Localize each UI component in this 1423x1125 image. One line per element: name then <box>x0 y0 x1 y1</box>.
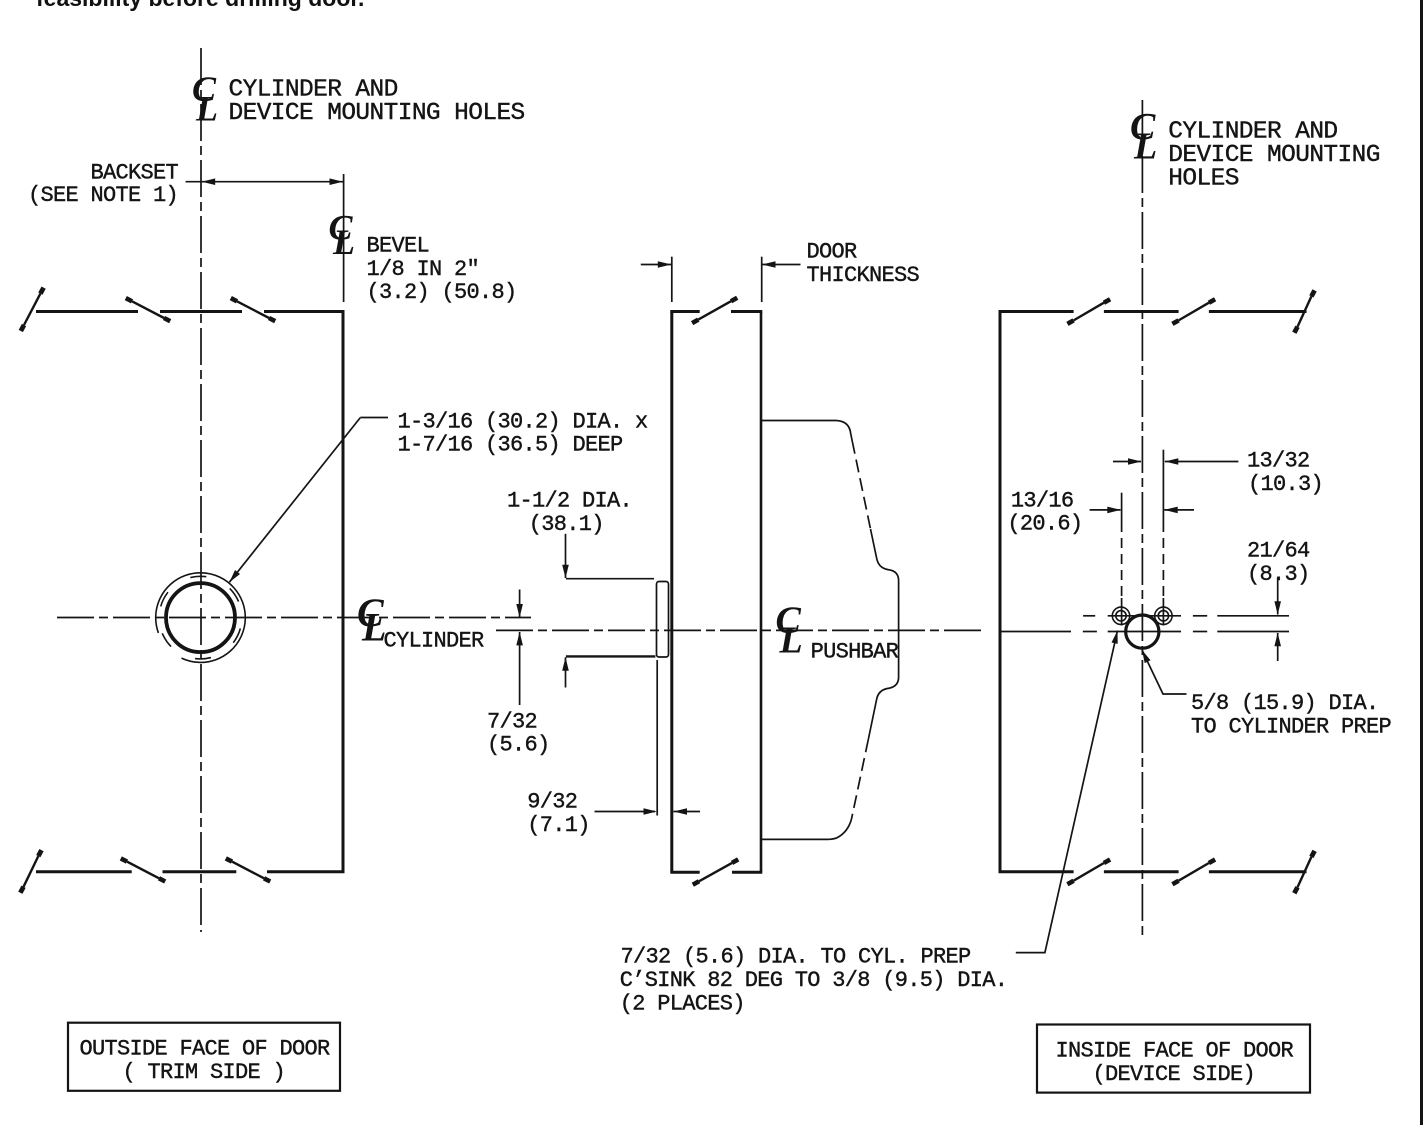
5/8 cylinder prep hole <box>1126 615 1159 648</box>
leader to 5/8 dia note <box>1142 650 1187 694</box>
right door bottom edge end slash <box>1294 851 1314 893</box>
svg-text:PUSHBAR: PUSHBAR <box>811 639 899 664</box>
left view horizontal cylinder centerline <box>57 617 531 619</box>
countersink note <box>620 945 1008 1017</box>
cylinder head protruding from outside face <box>657 582 669 658</box>
9/32 dimension with arrows <box>595 808 701 815</box>
pushbar centerline segments through right view <box>1002 631 1290 633</box>
svg-text:7/32: 7/32 <box>487 709 537 734</box>
svg-text:C’SINK 82 DEG TO 3/8 (9.5) DIA: C’SINK 82 DEG TO 3/8 (9.5) DIA. <box>620 968 1008 993</box>
right door bottom edge break 2 <box>1172 860 1215 885</box>
left hole extension line <box>1121 493 1123 626</box>
left door right edge (lock stile) <box>342 312 345 872</box>
door thickness extension lines <box>671 257 673 302</box>
7/32 offset note <box>487 709 550 757</box>
backset note <box>28 161 179 209</box>
1-1/2 dia dimension arrows <box>562 534 569 688</box>
cylinder hole circle (1-3/16 dia) <box>166 583 235 652</box>
svg-text:BACKSET: BACKSET <box>91 161 179 186</box>
svg-text:(2 PLACES): (2 PLACES) <box>620 992 745 1017</box>
13/32 note <box>1247 448 1323 496</box>
left door bottom edge break 2 <box>226 858 270 881</box>
outside face label box <box>68 1023 340 1091</box>
right header note <box>1168 119 1380 193</box>
7/32 offset dimension arrows <box>516 590 523 706</box>
inside face label box <box>1037 1025 1310 1093</box>
svg-text:( TRIM SIDE ): ( TRIM SIDE ) <box>123 1060 286 1085</box>
right mounting screw hole <box>1155 607 1172 624</box>
right door top edge break 1 <box>1067 299 1110 324</box>
cylinder body dashed circle <box>142 559 259 676</box>
center door bottom edge <box>670 871 762 874</box>
centerline symbol top-left <box>192 69 218 128</box>
right door top edge <box>999 310 1307 313</box>
svg-text:(5.6): (5.6) <box>487 733 550 758</box>
svg-text:(20.6): (20.6) <box>1007 512 1082 537</box>
center door right edge <box>760 312 763 872</box>
svg-text:OUTSIDE FACE OF DOOR: OUTSIDE FACE OF DOOR <box>80 1037 331 1062</box>
svg-text:13/32: 13/32 <box>1247 448 1310 473</box>
21/64 dimension arrows <box>1274 578 1281 661</box>
centerline symbol cylinder <box>357 590 386 649</box>
svg-text:5/8 (15.9) DIA.: 5/8 (15.9) DIA. <box>1191 691 1379 716</box>
13/16 dimension arrows <box>1090 507 1194 514</box>
mounting holes centerline segments <box>1083 615 1289 617</box>
left mounting screw hole <box>1112 607 1129 624</box>
left view vertical centerline <box>200 48 202 932</box>
svg-text:(8.3): (8.3) <box>1247 562 1310 587</box>
svg-text:HOLES: HOLES <box>1168 166 1239 193</box>
left door bottom edge <box>36 870 345 873</box>
9/32 extension line <box>656 660 658 816</box>
svg-text:(SEE NOTE 1): (SEE NOTE 1) <box>28 183 178 208</box>
left door top edge end slash <box>21 288 44 331</box>
svg-text:CYLINDER: CYLINDER <box>384 628 485 653</box>
svg-text:7/32 (5.6) DIA. TO CYL. PREP: 7/32 (5.6) DIA. TO CYL. PREP <box>621 945 972 970</box>
svg-text:BEVEL: BEVEL <box>367 233 430 258</box>
svg-text:1-3/16 (30.2) DIA. x: 1-3/16 (30.2) DIA. x <box>398 409 649 434</box>
cylinder hole size note <box>398 409 649 457</box>
pushbar centerline (center view) <box>496 629 985 631</box>
svg-text:1/8 IN 2″: 1/8 IN 2″ <box>367 257 480 282</box>
5/8 dia note <box>1191 691 1392 739</box>
left door bottom edge end slash <box>20 850 41 893</box>
right door top edge break 2 <box>1172 299 1215 324</box>
cylinder projection line top <box>566 578 654 580</box>
right door top edge end slash <box>1294 290 1314 332</box>
left header note <box>229 76 525 127</box>
9/32 note <box>527 790 590 839</box>
21/64 note <box>1247 539 1310 587</box>
svg-text:1-1/2 DIA.: 1-1/2 DIA. <box>507 489 632 514</box>
door thickness dimension arrows <box>641 261 801 268</box>
svg-text:DOOR: DOOR <box>807 240 858 265</box>
svg-text:L: L <box>1133 126 1157 168</box>
cylinder rose thin circle <box>143 560 258 675</box>
pushbar / device outline <box>762 421 899 840</box>
svg-text:L: L <box>195 88 218 128</box>
svg-text:(7.1): (7.1) <box>527 813 590 838</box>
svg-text:TO CYLINDER PREP: TO CYLINDER PREP <box>1191 714 1392 739</box>
left door top edge <box>36 310 345 313</box>
center door bottom edge break <box>693 859 738 884</box>
door thickness note <box>807 240 920 289</box>
svg-text:(10.3): (10.3) <box>1248 472 1323 497</box>
scan page right edge black bar <box>1420 0 1423 1125</box>
right door bottom edge <box>999 870 1307 873</box>
1-1/2 dia note <box>507 489 632 537</box>
svg-text:(38.1): (38.1) <box>529 512 604 537</box>
left door bottom edge break 1 <box>121 858 165 881</box>
center door left edge <box>670 312 673 872</box>
13/32 dimension arrows <box>1113 458 1238 465</box>
svg-text:L: L <box>332 222 355 262</box>
svg-text:L: L <box>779 619 803 661</box>
centerline symbol pushbar <box>776 600 803 662</box>
svg-text:13/16: 13/16 <box>1011 488 1074 513</box>
backset dimension line with arrows <box>186 178 344 185</box>
svg-text:DEVICE MOUNTING HOLES: DEVICE MOUNTING HOLES <box>229 100 525 127</box>
centerline symbol bevel <box>329 208 356 263</box>
svg-text:21/64: 21/64 <box>1247 539 1310 564</box>
right hole extension line <box>1162 450 1164 626</box>
left door top edge break 1 <box>126 298 170 321</box>
right door left edge <box>999 312 1002 872</box>
right view vertical centerline <box>1141 100 1143 939</box>
svg-text:INSIDE FACE OF DOOR: INSIDE FACE OF DOOR <box>1056 1038 1294 1063</box>
center door top edge <box>670 310 762 313</box>
svg-text:9/32: 9/32 <box>527 790 577 815</box>
left door top edge break 2 <box>231 298 275 321</box>
centerline symbol right view <box>1130 106 1157 168</box>
cropped heading text at top <box>36 0 364 10</box>
cylinder projection line bottom <box>566 655 656 657</box>
svg-text:(DEVICE SIDE): (DEVICE SIDE) <box>1093 1062 1256 1087</box>
svg-text:(3.2) (50.8): (3.2) (50.8) <box>367 280 517 305</box>
leader from cylinder circle to hole size note <box>229 418 388 583</box>
bevel extension line <box>343 174 345 302</box>
svg-text:L: L <box>361 604 386 649</box>
center door top edge break <box>692 298 737 323</box>
13/16 note <box>1007 488 1082 536</box>
leader from countersink note to screw hole <box>1016 631 1118 953</box>
bevel note <box>367 233 517 305</box>
svg-text:1-7/16 (36.5) DEEP: 1-7/16 (36.5) DEEP <box>398 433 624 458</box>
svg-text:THICKNESS: THICKNESS <box>807 263 920 288</box>
right door bottom edge break 1 <box>1067 860 1110 885</box>
